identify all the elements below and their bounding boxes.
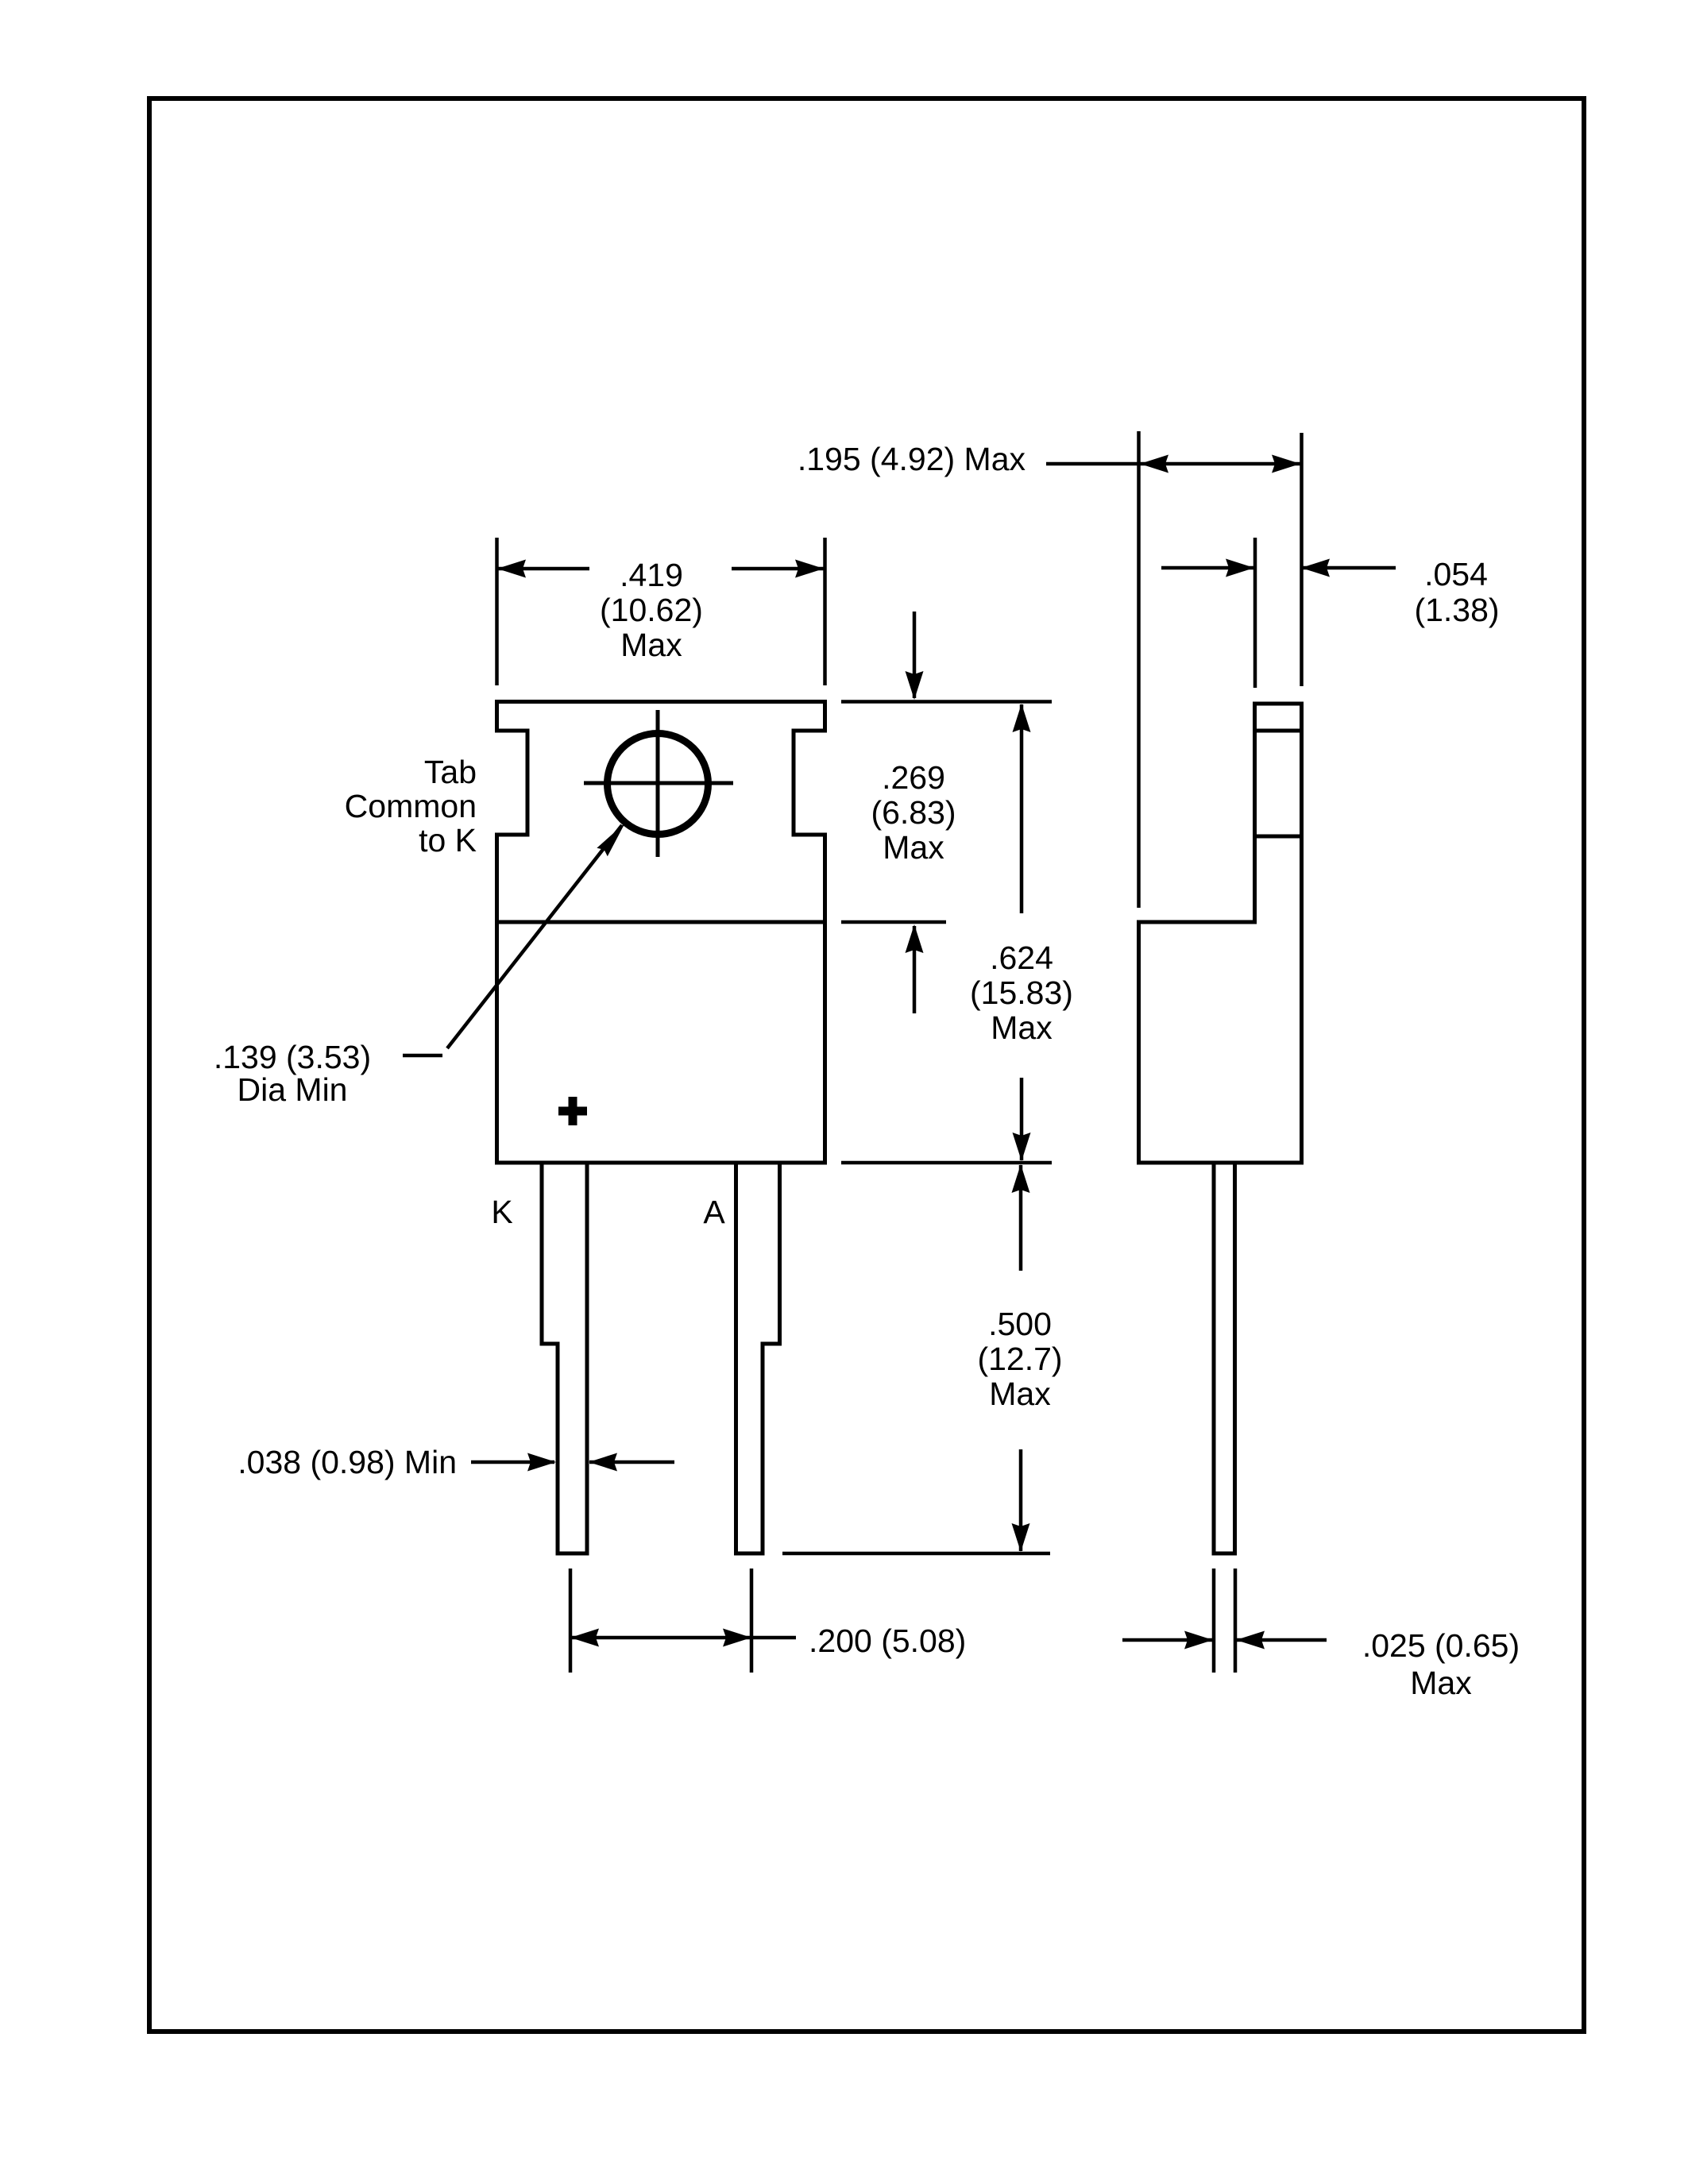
svg-text:.025 (0.65): .025 (0.65) — [1362, 1627, 1520, 1664]
dim .025 right arrow — [1237, 1638, 1327, 1642]
side view lead outline — [1214, 1163, 1235, 1553]
tab/body boundary line — [497, 920, 825, 924]
dim .195 dimension line with outward arrows — [1046, 462, 1300, 466]
dim .038 left arrow — [471, 1461, 554, 1464]
dim .054 right arrow — [1302, 566, 1396, 570]
dim .200 left extension line — [569, 1569, 573, 1673]
svg-text:Tab: Tab — [424, 754, 477, 790]
lead A outline — [736, 1163, 780, 1553]
dim .025 right extension line — [1234, 1569, 1238, 1673]
svg-text:Max: Max — [620, 627, 682, 663]
front view package outline (TO-220 body with notched tab) — [497, 702, 825, 1163]
svg-text:A: A — [703, 1194, 725, 1230]
svg-text:to K: to K — [419, 822, 477, 859]
hole crosshair horizontal — [584, 781, 733, 785]
mounting hole circle — [608, 734, 709, 835]
dim .200 dimension line — [570, 1636, 796, 1640]
svg-text:.269: .269 — [882, 759, 945, 796]
boundary extension line — [841, 920, 946, 924]
svg-text:K: K — [491, 1194, 512, 1230]
svg-text:.195 (4.92) Max: .195 (4.92) Max — [798, 441, 1026, 477]
polarity plus mark — [558, 1097, 587, 1125]
border frame — [149, 98, 1584, 2032]
svg-text:.054: .054 — [1424, 556, 1488, 592]
svg-text:.200 (5.08): .200 (5.08) — [809, 1623, 966, 1659]
svg-text:(10.62): (10.62) — [600, 592, 703, 628]
side view package outline — [1139, 704, 1302, 1163]
svg-text:Max: Max — [989, 1376, 1051, 1412]
svg-text:Dia Min: Dia Min — [238, 1071, 348, 1108]
lead K outline — [542, 1163, 587, 1553]
svg-text:Max: Max — [991, 1009, 1053, 1046]
side view notch lower line — [1255, 835, 1302, 839]
svg-text:.038 (0.98) Min: .038 (0.98) Min — [238, 1444, 457, 1480]
hole crosshair vertical — [656, 710, 660, 857]
bottom extension line at package bottom — [841, 1161, 1052, 1165]
svg-text:.419: .419 — [620, 557, 683, 593]
dim .624 lower arrow (points down to package bottom) — [1020, 1078, 1024, 1160]
dim .500 upper arrow (points up to package bottom) — [1019, 1165, 1023, 1271]
svg-text:.500: .500 — [988, 1306, 1052, 1342]
dim .025 left arrow — [1122, 1638, 1212, 1642]
side view notch upper line — [1255, 729, 1302, 733]
dim .038 right arrow — [589, 1461, 674, 1464]
dim .195 left extension line — [1137, 431, 1141, 908]
dim .419 right arrow — [732, 567, 824, 571]
dim .054 left arrow — [1161, 566, 1253, 570]
svg-text:(1.38): (1.38) — [1414, 592, 1499, 628]
svg-text:(12.7): (12.7) — [977, 1341, 1062, 1377]
dim .269 upper arrow (points down to package top) — [913, 612, 917, 698]
dim .200 right extension line — [750, 1569, 754, 1673]
hole dia leader arrow — [447, 825, 622, 1048]
svg-text:(6.83): (6.83) — [871, 794, 956, 831]
hole dia leader dash — [403, 1054, 442, 1058]
top extension line at package top — [841, 700, 1052, 704]
dim .195 right extension line — [1300, 433, 1304, 686]
svg-text:Max: Max — [883, 829, 944, 866]
lead-bottom extension line — [782, 1552, 1050, 1556]
svg-text:.139 (3.53): .139 (3.53) — [214, 1039, 371, 1075]
svg-text:Max: Max — [1410, 1665, 1472, 1701]
dim .419 left extension line — [495, 538, 499, 685]
dim .500 lower arrow (points down to lead bottom) — [1019, 1449, 1023, 1551]
dim .624 upper arrow (points up to package top) — [1020, 704, 1024, 913]
dim .025 left extension line — [1212, 1569, 1216, 1673]
dim .419 right extension line — [823, 538, 827, 685]
svg-text:(15.83): (15.83) — [970, 974, 1073, 1011]
svg-text:Common: Common — [345, 788, 477, 824]
dim .269 lower arrow (points up to boundary) — [913, 926, 917, 1013]
dim .054 front extension line — [1253, 538, 1257, 688]
dim .419 left arrow — [497, 567, 589, 571]
svg-text:.624: .624 — [990, 940, 1053, 976]
